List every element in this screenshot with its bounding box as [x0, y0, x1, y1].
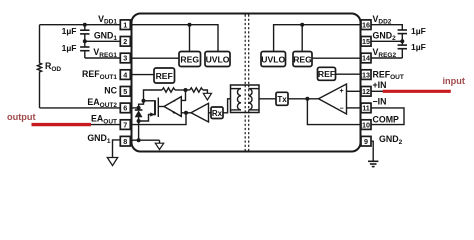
- wire VREG2 external: [371, 57, 402, 59]
- regulator REG left: [179, 52, 201, 67]
- wire VREG1 internal: [132, 57, 180, 59]
- label REFOUT1: [82, 69, 117, 81]
- label C4 value 1uF: [411, 42, 426, 52]
- svg-text:COMP: COMP: [373, 115, 400, 125]
- wire EAOUT2 internal: [132, 107, 139, 109]
- wire R1 to node A: [175, 89, 190, 91]
- wire VREG1 external: [85, 57, 121, 59]
- wire EAOUT pin7 external: [90, 124, 121, 126]
- svg-text:12: 12: [362, 87, 370, 96]
- svg-text:8: 8: [123, 137, 127, 146]
- pin 13: [361, 70, 371, 80]
- wire +IN internal: [347, 90, 361, 92]
- op-amp error amplifier left: [164, 97, 181, 117]
- wire VDD1 external: [40, 24, 122, 26]
- ground symbol right earth: [368, 161, 378, 166]
- transmitter Tx: [276, 92, 288, 105]
- wire Rx to transformer: [223, 99, 231, 113]
- node source junction: [137, 119, 141, 123]
- svg-text:2: 2: [123, 37, 127, 46]
- wire VREG2 internal: [312, 57, 361, 59]
- node output junction right: [305, 97, 309, 101]
- pin 10: [361, 120, 371, 130]
- label GND1: [94, 30, 118, 42]
- svg-text:+: +: [172, 111, 175, 117]
- wire ROD to pin6: [40, 107, 122, 109]
- pin 16: [361, 20, 371, 30]
- wire GND2 external: [371, 40, 402, 42]
- node VDD1-C1 junction: [83, 23, 87, 27]
- svg-text:15: 15: [362, 37, 370, 46]
- svg-text:+IN: +IN: [373, 80, 387, 90]
- label VREG1: [93, 47, 117, 59]
- svg-text:5: 5: [123, 87, 127, 96]
- label GND2 pin9: [379, 134, 403, 146]
- label ROD value: [45, 61, 61, 73]
- label C3 value 1uF: [411, 26, 426, 36]
- pin 9: [361, 136, 371, 146]
- wire error amp input to buffer: [181, 112, 191, 114]
- wire -IN internal: [347, 107, 361, 109]
- isolation barrier dashed line left: [244, 15, 246, 151]
- transformer T1: [231, 85, 260, 113]
- input net red line: [383, 90, 451, 93]
- label GND2: [373, 30, 397, 42]
- wire node A to error amp input: [181, 90, 185, 100]
- capacitor C2 1uF: [80, 41, 89, 58]
- svg-text:1µF: 1µF: [411, 42, 426, 52]
- label VDD2: [373, 14, 392, 26]
- label REFOUT: [373, 69, 404, 81]
- svg-text:−: −: [172, 99, 175, 105]
- pin 4: [120, 70, 130, 80]
- resistor R1 internal: [162, 88, 175, 92]
- svg-text:−IN: −IN: [373, 97, 387, 107]
- label C2 value 1uF: [62, 43, 77, 53]
- uvlo UVLO left: [205, 52, 230, 67]
- wire Tx to opamp output: [288, 98, 319, 100]
- svg-text:9: 9: [364, 137, 368, 146]
- label VDD1: [98, 14, 117, 26]
- wire REFOUT internal: [336, 73, 361, 75]
- wire GND2 pin9 external: [371, 141, 373, 161]
- svg-text:13: 13: [362, 70, 370, 79]
- wire ground stub internal: [159, 140, 161, 143]
- svg-text:output: output: [7, 112, 36, 122]
- node internal ground junction: [137, 138, 141, 142]
- pin 8: [120, 136, 130, 146]
- node GND1-C junction: [83, 39, 87, 43]
- svg-text:1µF: 1µF: [62, 43, 77, 53]
- wire REG2 top stub: [301, 25, 303, 52]
- resistor ROD: [37, 25, 41, 108]
- wire GND1 internal: [132, 139, 160, 141]
- reference REF left: [154, 68, 175, 83]
- node pin6 junction: [137, 106, 141, 110]
- wire GND1 pin8 external: [113, 140, 121, 158]
- wire VDD1 internal rail: [132, 25, 219, 52]
- wire drain jog to pin6 node: [139, 101, 144, 108]
- capacitor C4 1uF: [398, 41, 407, 58]
- svg-text:14: 14: [362, 54, 370, 63]
- svg-text:11: 11: [362, 104, 370, 113]
- node feedback junction: [184, 111, 188, 115]
- isolation barrier dashed line right: [248, 15, 250, 151]
- wire R2 to ground: [203, 90, 208, 93]
- svg-text:input: input: [443, 76, 465, 86]
- svg-text:1µF: 1µF: [62, 26, 77, 36]
- op-amp input amplifier right: [319, 84, 347, 114]
- pin 12: [361, 87, 371, 97]
- svg-text:REG: REG: [180, 54, 199, 64]
- node drain junction: [142, 99, 146, 103]
- IC body U1: [132, 14, 361, 152]
- label NC: [104, 86, 117, 96]
- svg-text:REF: REF: [318, 69, 335, 79]
- pin 5: [120, 87, 130, 97]
- svg-text:6: 6: [123, 104, 127, 113]
- svg-text:−: −: [339, 106, 343, 113]
- svg-text:Tx: Tx: [277, 95, 287, 104]
- svg-text:REF: REF: [156, 71, 173, 81]
- uvlo UVLO right: [261, 52, 286, 67]
- reference REF right: [318, 67, 336, 80]
- pin 11: [361, 103, 371, 113]
- svg-text:UVLO: UVLO: [261, 54, 285, 64]
- node GND2-C junction: [400, 39, 404, 43]
- pin 14: [361, 53, 371, 63]
- ground symbol divider: [203, 93, 211, 100]
- capacitor C1 1uF: [80, 25, 89, 42]
- label input: [443, 76, 465, 86]
- label C1 value 1uF: [62, 26, 77, 36]
- wire transformer to Tx: [259, 98, 276, 100]
- wire REFOUT1 internal: [132, 74, 155, 76]
- wire feedback to EAOUT pin7: [132, 113, 187, 125]
- op-amp buffer left: [191, 103, 209, 122]
- svg-text:10: 10: [362, 120, 370, 129]
- transistor Q1 mosfet: [139, 98, 159, 122]
- svg-text:3: 3: [123, 54, 127, 63]
- label +IN: [373, 80, 387, 90]
- node A divider junction: [184, 88, 188, 92]
- pin 3: [120, 53, 130, 63]
- receiver Rx: [211, 107, 223, 119]
- ground symbol left external: [107, 158, 117, 166]
- svg-text:4: 4: [123, 70, 127, 79]
- svg-text:UVLO: UVLO: [206, 54, 230, 64]
- wire REG1 top stub: [189, 25, 191, 52]
- label COMP: [373, 115, 400, 125]
- wire error amp output to gate: [158, 106, 164, 108]
- label GND1 pin8: [87, 133, 111, 145]
- pin 1: [120, 20, 130, 30]
- wire feedback top rail: [144, 90, 163, 101]
- svg-text:REG: REG: [293, 54, 312, 64]
- svg-text:NC: NC: [104, 86, 117, 96]
- ground symbol internal left: [155, 143, 163, 149]
- pin 2: [120, 37, 130, 47]
- capacitor C3 1uF: [398, 30, 407, 41]
- label VREG2: [373, 47, 397, 59]
- svg-text:16: 16: [362, 20, 370, 29]
- node REG2 tap junction: [300, 23, 304, 27]
- svg-text:7: 7: [123, 120, 127, 129]
- wire output to COMP: [307, 99, 360, 125]
- output net red line: [32, 123, 92, 126]
- wire GND1 external: [85, 40, 121, 42]
- wire buffer to Rx: [209, 112, 212, 114]
- svg-text:Rx: Rx: [212, 109, 223, 118]
- wire -IN to COMP external: [371, 108, 404, 125]
- label EAOUT2: [87, 97, 117, 109]
- label EAOUT: [91, 114, 117, 126]
- svg-text:1µF: 1µF: [411, 26, 426, 36]
- svg-text:1: 1: [123, 20, 127, 29]
- svg-text:+: +: [339, 88, 343, 95]
- label -IN: [373, 97, 387, 107]
- pin 6: [120, 103, 130, 113]
- regulator REG right: [293, 52, 312, 67]
- wire VDD2 external: [371, 25, 402, 30]
- pin 15: [361, 37, 371, 47]
- resistor R2 internal: [190, 88, 203, 92]
- wire VDD2 internal rail: [274, 25, 361, 52]
- pin 7: [120, 120, 130, 130]
- node REG1 tap junction: [188, 23, 192, 27]
- label output: [7, 112, 36, 122]
- wire +IN pin12 external: [371, 90, 385, 92]
- diode D1 zener: [135, 108, 143, 140]
